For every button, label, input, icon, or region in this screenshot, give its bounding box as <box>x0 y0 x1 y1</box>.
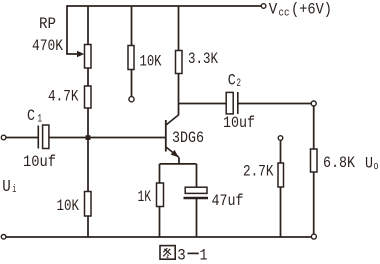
potentiometer RP wiper arrow <box>77 51 84 57</box>
wire 2.7K bottom lead to ground rail <box>280 187 282 237</box>
terminal input Ui circle <box>1 135 6 140</box>
capacitor C1 right plate box <box>43 125 49 149</box>
wire C2 to output terminal <box>238 103 311 105</box>
capacitor 47uf bottom plate <box>184 197 209 199</box>
transistor Q1 3DG6 base bar <box>165 120 167 152</box>
svg-text:47uf: 47uf <box>212 192 244 210</box>
resistor 1K body <box>157 183 164 207</box>
wire output column upper <box>313 106 315 149</box>
svg-text:RP: RP <box>39 15 56 33</box>
wire C1 input lead <box>6 137 38 139</box>
resistor 6.8K body <box>311 149 318 172</box>
wire C1 to node A <box>49 137 88 139</box>
wire RP top lead from rail <box>87 6 89 45</box>
svg-text:10K: 10K <box>140 52 162 70</box>
svg-text:2.7K: 2.7K <box>243 162 274 180</box>
svg-text:1: 1 <box>38 113 43 125</box>
wire 2.7K top lead from terminal <box>280 140 282 163</box>
terminal 2.7K open circle <box>278 136 283 141</box>
wire 3.3K top lead <box>178 6 180 51</box>
capacitor 47uf top plate box <box>185 187 207 193</box>
label Uo <box>365 154 379 173</box>
svg-text:(+6V): (+6V) <box>291 1 332 19</box>
svg-text:470K: 470K <box>32 37 63 55</box>
wire RP wiper horizontal <box>66 53 79 55</box>
wire 10K upper top lead <box>131 6 133 46</box>
wire RP bottom to 4.7K top <box>87 68 89 86</box>
wire 47uf bottom lead <box>196 199 198 237</box>
resistor 4.7K body <box>85 86 92 108</box>
wire 1K bottom lead <box>159 207 161 238</box>
transistor Q1 emitter arrow <box>171 150 179 158</box>
node A junction dot <box>86 135 91 140</box>
terminal ground right circle <box>311 234 316 239</box>
wire 47uf top lead <box>196 164 198 187</box>
wire 10K upper bottom lead to open terminal <box>131 70 133 97</box>
wire emitter down to RC bar <box>178 157 180 164</box>
capacitor C2 left plate box <box>226 92 233 114</box>
resistor 10K lower body <box>85 192 92 217</box>
svg-text:10uf: 10uf <box>23 153 56 171</box>
svg-text:C: C <box>228 72 236 90</box>
svg-text:C: C <box>27 107 35 125</box>
svg-text:U: U <box>2 178 11 197</box>
wire node A down to 10K lower <box>87 138 89 192</box>
svg-text:10K: 10K <box>57 197 80 215</box>
wire emitter RC top bar <box>160 163 197 165</box>
wire top supply rail <box>67 5 262 7</box>
svg-text:o: o <box>374 161 379 173</box>
svg-text:3DG6: 3DG6 <box>172 129 204 147</box>
label C1 <box>27 107 42 126</box>
caption figure 图3-1 <box>160 246 175 260</box>
svg-text:i: i <box>12 184 16 196</box>
wire left drop from rail to wiper <box>66 5 68 54</box>
terminal output C2 circle <box>311 101 316 106</box>
wire 4.7K bottom to node A <box>87 108 89 138</box>
svg-text:1K: 1K <box>138 188 152 206</box>
svg-text:V: V <box>269 1 278 19</box>
wire 10K lower bottom to ground rail <box>87 216 89 237</box>
svg-text:U: U <box>365 154 373 172</box>
terminal ground left circle <box>1 235 6 240</box>
svg-text:4.7K: 4.7K <box>48 87 79 105</box>
svg-text:3.3K: 3.3K <box>188 50 218 68</box>
transistor Q1 collector lead <box>166 115 179 125</box>
terminal 10K upper open circle <box>129 97 134 102</box>
wire base from node A to Q1 <box>88 137 165 139</box>
resistor 2.7K body <box>278 163 284 187</box>
wire collector node to C2 <box>179 103 227 105</box>
svg-text:1: 1 <box>200 246 208 264</box>
potentiometer RP body <box>85 45 92 69</box>
transistor Q1 emitter lead <box>166 147 179 157</box>
label Ui <box>2 178 16 197</box>
resistor 10K upper body <box>128 46 134 70</box>
capacitor C2 right plate <box>237 92 239 114</box>
svg-text:2: 2 <box>237 78 242 90</box>
wire ground bottom rail <box>6 236 312 238</box>
terminal Vcc circle <box>261 4 266 9</box>
wire 3.3K bottom to collector <box>178 74 180 115</box>
capacitor C1 left plate <box>37 126 39 149</box>
wire 1K top lead <box>159 164 161 183</box>
label C2 <box>228 72 241 91</box>
svg-text:cc: cc <box>279 7 290 19</box>
label Vcc(+6V) <box>269 1 332 20</box>
svg-text:6.8K: 6.8K <box>323 154 355 172</box>
resistor 3.3K body <box>176 51 183 74</box>
svg-text:10uf: 10uf <box>223 114 255 132</box>
wire 6.8K bottom to ground circle <box>313 172 315 234</box>
svg-text:3: 3 <box>177 246 186 264</box>
